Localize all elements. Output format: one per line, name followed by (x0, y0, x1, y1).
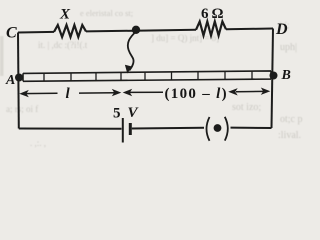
svg-text:X: X (59, 7, 71, 23)
svg-text:uph|: uph| (280, 42, 297, 53)
paper background (0, 0, 309, 148)
jockey arrowhead (125, 65, 132, 74)
svg-text:(100 – l): (100 – l) (165, 86, 228, 102)
svg-text:6 Ω: 6 Ω (201, 6, 224, 22)
svg-text:] du] = Q) jnt] = b]: ] du] = Q) jnt] = b] (151, 33, 219, 43)
svg-text:D: D (275, 21, 288, 38)
svg-text:C: C (6, 25, 17, 42)
svg-text:sot izo;: sot izo; (232, 102, 261, 113)
jockey wire (wavy lead from junction to slide wire) (128, 31, 137, 71)
svg-text:e eleristal co st;: e eleristal co st; (80, 8, 133, 18)
svg-text:it. | ,dc :(?i!(.t: it. | ,dc :(?i!(.t (38, 40, 88, 50)
slide wire scale ticks (44, 71, 252, 81)
svg-text:ot;c p: ot;c p (280, 114, 303, 125)
node B dot (270, 72, 278, 80)
junction dot (jockey tap on top wire) (132, 26, 140, 34)
svg-text:. ,:. ,: . ,:. , (30, 138, 46, 148)
dimension arrow (100 - l) (right span) (129, 91, 264, 92)
wire: top right segment to D (226, 28, 273, 31)
key/galvanometer symbol right arc (225, 117, 228, 141)
svg-text:A: A (5, 73, 15, 88)
resistor 6 ohm (196, 22, 226, 36)
key/galvanometer symbol dot (214, 124, 222, 132)
slide wire bar A to B (23, 71, 271, 81)
wire: left vertical C to bottom (17, 33, 20, 129)
wire: top middle segment (86, 30, 196, 32)
wire: bottom right segment key to B-corner (231, 127, 272, 129)
node A dot (15, 74, 23, 82)
svg-text:a; rs; oi f: a; rs; oi f (6, 104, 38, 114)
wire: bottom middle segment battery to key (132, 127, 204, 130)
svg-text:B: B (281, 68, 291, 83)
wire: right vertical D to bottom (272, 29, 274, 129)
resistor X (54, 25, 86, 37)
key/galvanometer symbol left arc (207, 117, 210, 141)
battery cell: long plate (122, 118, 124, 143)
dimension arrow l (left span) (22, 92, 115, 95)
svg-text::lival.: :lival. (278, 130, 301, 141)
battery cell: short plate (129, 123, 132, 135)
svg-text:5: 5 (113, 106, 121, 122)
wire: top left segment C to resistor X (18, 31, 54, 34)
wire: bottom left segment A-corner to battery (19, 128, 122, 130)
